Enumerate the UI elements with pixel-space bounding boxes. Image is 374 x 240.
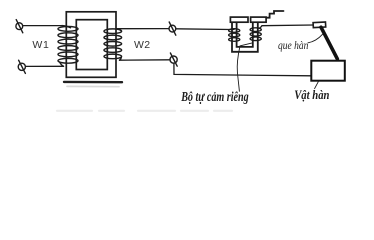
faint cropped caption remnants (decorative) — [57, 110, 232, 112]
svg-text:Bộ tự cảm riêng: Bộ tự cảm riêng — [180, 89, 248, 104]
reactor winding (left limb) — [229, 29, 240, 42]
svg-text:que hàn: que hàn — [278, 40, 309, 52]
workpiece (vat han) — [311, 61, 345, 81]
svg-text:Vật hàn: Vật hàn — [294, 87, 329, 102]
svg-text:W1: W1 — [32, 39, 49, 51]
reactor winding (right limb) — [250, 26, 262, 41]
terminal T1 (input, top-left) — [16, 20, 23, 33]
leader line — [315, 81, 319, 89]
wire — [23, 25, 62, 27]
wire — [262, 24, 313, 27]
reactor core (Bo tu cam rieng) — [232, 23, 258, 52]
wire — [117, 28, 169, 30]
transformer core — [66, 12, 116, 78]
leader line — [308, 34, 323, 43]
wire — [120, 59, 171, 61]
wire — [176, 28, 231, 31]
wire — [174, 63, 311, 76]
terminal T3 (output, top) — [169, 22, 176, 35]
leader line — [237, 43, 252, 91]
scan shadow under transformer (decorative) — [67, 85, 119, 87]
electrode (que han) — [321, 27, 337, 59]
reactor movable yoke — [230, 17, 266, 22]
terminal T2 (input, bottom-left) — [18, 60, 25, 73]
winding W2 (secondary) — [104, 29, 122, 61]
reactor adjusting screw handle — [266, 11, 283, 18]
electrode holder — [313, 22, 326, 28]
transformer base line — [64, 81, 122, 84]
terminal T4 (output, bottom) — [170, 53, 177, 66]
winding W1 (primary) — [58, 26, 78, 67]
svg-text:W2: W2 — [134, 39, 150, 51]
wire — [26, 65, 64, 67]
